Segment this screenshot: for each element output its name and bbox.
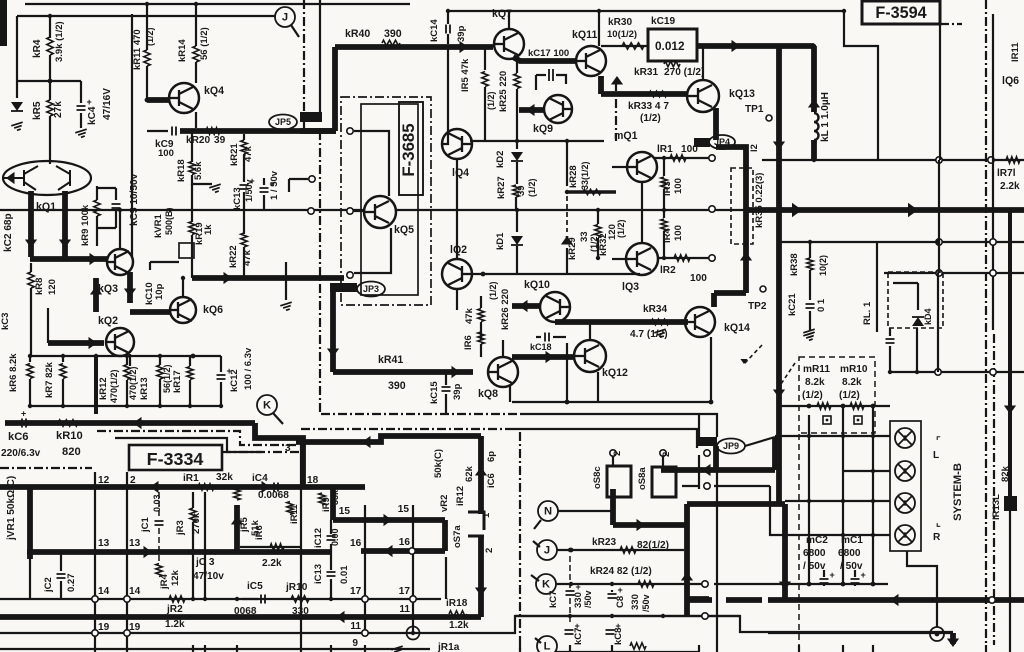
svg-text:10p: 10p bbox=[154, 283, 165, 300]
svg-text:kQ10: kQ10 bbox=[524, 279, 550, 291]
wire bbox=[146, 4, 148, 50]
wire y406 bbox=[779, 405, 890, 407]
resistor jR5 column bbox=[234, 505, 240, 552]
svg-text:kR6 8.2k: kR6 8.2k bbox=[8, 353, 19, 392]
wire bbox=[47, 308, 49, 343]
svg-text:6800: 6800 bbox=[838, 548, 861, 559]
capacitor mC2 bbox=[820, 579, 829, 583]
svg-text:kR38: kR38 bbox=[789, 253, 800, 276]
svg-text:kC17 100: kC17 100 bbox=[528, 48, 569, 59]
wire emitter rail bbox=[512, 401, 711, 403]
resistor kR23 bbox=[620, 547, 636, 553]
wire bbox=[243, 247, 245, 278]
svg-text:+: + bbox=[830, 570, 835, 580]
svg-text:270 (1/2): 270 (1/2) bbox=[664, 67, 704, 78]
capacitor near kQ9 bbox=[536, 74, 546, 76]
wire kQ8 collector bbox=[502, 340, 504, 357]
resistor kR31 bbox=[664, 61, 680, 67]
wire bbox=[119, 327, 121, 329]
transistor lQ4 bbox=[442, 129, 472, 159]
svg-text:kR41: kR41 bbox=[378, 354, 403, 366]
svg-text:F-3594: F-3594 bbox=[875, 4, 926, 22]
svg-text:15: 15 bbox=[339, 506, 351, 517]
svg-text:L: L bbox=[544, 641, 551, 652]
transistor kQ2 bbox=[106, 328, 134, 356]
wire bbox=[263, 195, 265, 210]
svg-text:lR6: lR6 bbox=[463, 335, 474, 350]
resistor kR14 bbox=[193, 46, 199, 62]
resistor kR24 bbox=[638, 581, 654, 587]
svg-text:14: 14 bbox=[98, 586, 110, 597]
svg-text:470(1/2): 470(1/2) bbox=[109, 369, 119, 403]
wire pin column 3-18 bbox=[300, 437, 302, 645]
svg-text:mR10: mR10 bbox=[840, 364, 868, 375]
svg-text:kR26 220: kR26 220 bbox=[500, 289, 511, 330]
wire bbox=[195, 62, 197, 83]
wire kQ11 collector bbox=[598, 11, 600, 46]
svg-text:kR27: kR27 bbox=[496, 176, 507, 199]
wire thick drop2 bbox=[776, 160, 782, 210]
svg-text:+: + bbox=[861, 570, 866, 580]
resistor iR18 bbox=[449, 611, 467, 617]
wire col mC1 bbox=[872, 406, 874, 584]
resistor kR35 box bbox=[731, 168, 753, 244]
pin bbox=[709, 206, 715, 212]
svg-text:56(1/2): 56(1/2) bbox=[162, 364, 172, 393]
switch oS8c bbox=[607, 466, 631, 497]
wire lR1 bbox=[654, 157, 712, 159]
svg-text:kQ8: kQ8 bbox=[478, 388, 498, 400]
wire bbox=[80, 81, 82, 103]
ground2 bbox=[803, 329, 816, 338]
ground bbox=[391, 646, 404, 652]
wire staircase thick bbox=[255, 423, 303, 487]
wire bbox=[149, 262, 151, 270]
transistor mQ1 bbox=[627, 152, 657, 182]
svg-text:iC5: iC5 bbox=[247, 581, 263, 592]
ground bbox=[75, 129, 88, 138]
wire kQ14 collector bbox=[711, 293, 717, 307]
svg-text:mQ1: mQ1 bbox=[614, 130, 638, 142]
wire kC17 bbox=[513, 57, 577, 61]
svg-text:1: 1 bbox=[481, 512, 492, 518]
svg-text:kC14: kC14 bbox=[429, 19, 440, 42]
ground bbox=[209, 184, 222, 193]
svg-text:kR29: kR29 bbox=[567, 237, 578, 260]
svg-text:2: 2 bbox=[612, 451, 623, 456]
svg-text:330: 330 bbox=[630, 594, 641, 610]
resistor kR9 bbox=[96, 186, 98, 200]
wire thick up bbox=[684, 504, 690, 525]
arrow up bbox=[611, 76, 623, 85]
svg-text:/50v: /50v bbox=[583, 590, 593, 608]
svg-text:R: R bbox=[933, 532, 941, 543]
wire frame right bbox=[844, 12, 878, 160]
diode kD4 bbox=[912, 317, 924, 326]
col kC8 bbox=[611, 590, 613, 592]
wire bbox=[893, 282, 918, 284]
wire bottom right rail bbox=[768, 632, 953, 634]
transistor kQ12 bbox=[574, 340, 606, 372]
svg-text:C8: C8 bbox=[615, 596, 626, 608]
svg-text:kQ6: kQ6 bbox=[203, 304, 223, 316]
svg-text:100: 100 bbox=[690, 273, 707, 284]
wire bbox=[191, 235, 193, 278]
letter node L bbox=[537, 636, 557, 652]
svg-text:lR1: lR1 bbox=[657, 144, 673, 155]
wire bbox=[285, 262, 287, 300]
svg-text:RL. 1: RL. 1 bbox=[862, 301, 873, 325]
capacitor kC12 bbox=[220, 356, 222, 372]
svg-text:kC4: kC4 bbox=[87, 106, 98, 125]
wire kQ12 base arrow bbox=[512, 354, 574, 360]
svg-text:10(2): 10(2) bbox=[818, 255, 828, 276]
rail thick dash mid bbox=[687, 596, 709, 602]
wire JP9 right bbox=[745, 437, 775, 446]
resistor jR2 bbox=[169, 596, 185, 602]
resistor lR3 bbox=[663, 158, 665, 176]
svg-text:kR18: kR18 bbox=[176, 159, 187, 182]
speaker terminal 3 bbox=[895, 493, 915, 513]
wire pin stub bbox=[289, 178, 308, 180]
rail thick y552 bbox=[27, 549, 330, 555]
capacitor kC4 bbox=[77, 106, 86, 110]
wire bbox=[447, 46, 449, 136]
wire thick to rail bbox=[716, 147, 746, 293]
svg-text:17: 17 bbox=[399, 586, 411, 597]
svg-text:kC12: kC12 bbox=[229, 369, 240, 392]
wire bbox=[698, 414, 700, 437]
wire bbox=[49, 16, 51, 38]
wire thick oS8 column bbox=[684, 525, 690, 617]
wire thick right drop bbox=[776, 212, 782, 504]
svg-text:2.2k: 2.2k bbox=[262, 558, 282, 569]
wire kQ6 collector bbox=[182, 278, 184, 297]
transistor kQ9 bbox=[544, 95, 572, 123]
svg-text:kR35 0.22(3): kR35 0.22(3) bbox=[754, 173, 765, 228]
svg-text:/50v: /50v bbox=[641, 594, 651, 612]
wire bbox=[191, 184, 193, 222]
wire kQ9 base arrow bbox=[519, 107, 544, 113]
wire bbox=[263, 178, 265, 185]
wire dash col bbox=[798, 434, 800, 645]
wire col bbox=[808, 415, 810, 584]
svg-text:kR7 82k: kR7 82k bbox=[44, 361, 55, 398]
svg-text:K: K bbox=[542, 579, 550, 591]
svg-text:kD2: kD2 bbox=[495, 151, 506, 168]
letter node J2 bbox=[537, 540, 557, 560]
wire pin column 12-19 b bbox=[126, 472, 128, 645]
svg-text:kVR1: kVR1 bbox=[153, 214, 164, 238]
svg-text:kR25 220: kR25 220 bbox=[498, 71, 509, 112]
svg-text:kR4: kR4 bbox=[32, 39, 43, 58]
rail main thick right bbox=[746, 207, 1024, 213]
wire boundary dashdot right bbox=[985, 0, 987, 645]
wire bbox=[319, 0, 321, 112]
svg-text:jR3: jR3 bbox=[175, 520, 186, 536]
wire bbox=[97, 187, 116, 189]
svg-text:390: 390 bbox=[388, 380, 406, 392]
wire bias bottom bbox=[30, 405, 221, 407]
wire col jp9r bbox=[716, 472, 718, 645]
wire speaker return drop bbox=[950, 633, 956, 644]
wire kC5 column bbox=[131, 14, 133, 258]
resistor jR3 bbox=[192, 492, 194, 508]
module label F-3685 bbox=[399, 102, 423, 195]
svg-text:iR6: iR6 bbox=[254, 525, 265, 540]
svg-text:kC2 68p: kC2 68p bbox=[3, 213, 14, 252]
resistor kR17 bbox=[189, 356, 191, 366]
svg-text:F-3334: F-3334 bbox=[147, 449, 204, 469]
wire bbox=[195, 4, 197, 46]
svg-text:K: K bbox=[263, 400, 271, 412]
capacitor kC9 bbox=[172, 127, 176, 136]
wire kQ2 base arrow bbox=[48, 340, 104, 346]
ground bbox=[654, 329, 667, 338]
resistor lR4 bbox=[663, 210, 665, 218]
switch link dashes bbox=[744, 345, 762, 364]
svg-text:kR8: kR8 bbox=[34, 278, 45, 295]
capacitor kC7b bbox=[565, 630, 574, 634]
capacitor iC5 bbox=[242, 598, 258, 600]
wire thick to JP5 bbox=[180, 128, 336, 134]
speaker box bbox=[890, 421, 921, 551]
svg-text:62k: 62k bbox=[464, 465, 475, 482]
switch oS7a bbox=[468, 512, 484, 530]
svg-text:kR22: kR22 bbox=[228, 245, 239, 268]
wire K kR24 bbox=[556, 583, 705, 585]
wire pin column 15-11 bbox=[364, 505, 366, 633]
wire K rail ext bbox=[714, 583, 888, 585]
wire kQ12 emitter bbox=[597, 372, 599, 402]
svg-text:50k(C): 50k(C) bbox=[433, 449, 444, 478]
svg-text:39: 39 bbox=[516, 185, 527, 196]
rail kR40 thick bbox=[335, 44, 493, 50]
resistor kR11 bbox=[144, 50, 150, 66]
rail thick y487 bbox=[0, 484, 365, 490]
diode kD2 bbox=[516, 141, 518, 149]
wire main rail left bbox=[0, 209, 363, 211]
transistor kQ11 bbox=[576, 46, 606, 76]
resistor kR8 bbox=[30, 263, 32, 272]
svg-text:JP5: JP5 bbox=[275, 117, 291, 127]
wire jVR1 column bbox=[27, 487, 33, 559]
svg-text:mR11: mR11 bbox=[803, 364, 830, 375]
svg-text:jC 3: jC 3 bbox=[195, 557, 215, 568]
resistor kR26 bbox=[480, 296, 482, 308]
svg-text:lQ4: lQ4 bbox=[452, 167, 469, 179]
switch oS8a bbox=[652, 467, 676, 497]
svg-text:iR18: iR18 bbox=[446, 598, 468, 609]
resistor kR32 bbox=[597, 210, 599, 224]
connector JP9 bbox=[698, 437, 717, 446]
svg-text:L: L bbox=[933, 450, 939, 461]
ground bbox=[280, 302, 293, 311]
capacitor jC2 bbox=[60, 552, 62, 571]
svg-text:kL 1 1.0µH: kL 1 1.0µH bbox=[820, 92, 831, 142]
svg-text:kC7: kC7 bbox=[573, 628, 584, 645]
wire boundary dashdot2 bbox=[319, 131, 321, 413]
zener kD L bbox=[11, 102, 23, 111]
wire bbox=[939, 24, 941, 160]
svg-text:500(B): 500(B) bbox=[164, 207, 174, 235]
capacitor iC12 bbox=[330, 520, 332, 534]
svg-text:0.03: 0.03 bbox=[152, 494, 162, 512]
svg-text:(1/2): (1/2) bbox=[802, 390, 823, 401]
wire pin column b bbox=[412, 505, 414, 633]
wire bottom edge bbox=[0, 648, 430, 650]
capacitor kC8b bbox=[606, 630, 615, 634]
svg-text:+: + bbox=[576, 582, 581, 592]
svg-text:kR20: kR20 bbox=[186, 135, 211, 146]
transistor kQ14 bbox=[685, 307, 715, 337]
transistor kQ3 bbox=[107, 249, 133, 275]
wire rail y242 bbox=[779, 241, 1024, 243]
svg-text:270k: 270k bbox=[191, 512, 202, 534]
svg-text:+: + bbox=[87, 97, 92, 107]
svg-text:iR12: iR12 bbox=[455, 486, 466, 506]
terminal marks bbox=[823, 416, 831, 424]
wire bbox=[243, 154, 245, 182]
svg-text:6800: 6800 bbox=[803, 548, 826, 559]
resistor lR5 bbox=[484, 47, 486, 70]
svg-text:kR21: kR21 bbox=[229, 143, 240, 166]
resistor iR9 bbox=[319, 493, 325, 505]
svg-text:oS8c: oS8c bbox=[592, 466, 603, 489]
wire bbox=[1009, 511, 1011, 645]
speaker terminal 2 bbox=[895, 461, 915, 481]
svg-text:47/16V: 47/16V bbox=[102, 88, 113, 120]
wire bbox=[192, 175, 212, 184]
resistor lR6 bbox=[478, 332, 484, 344]
svg-text:kQ14: kQ14 bbox=[724, 322, 750, 334]
svg-text:kR14: kR14 bbox=[177, 39, 188, 62]
wire lamp rows bbox=[775, 435, 890, 437]
wire N bbox=[558, 510, 613, 512]
svg-text:kQ2: kQ2 bbox=[98, 315, 118, 327]
svg-text:lQ2: lQ2 bbox=[450, 244, 467, 256]
wire top mid bbox=[448, 10, 844, 12]
resistor mR11 bbox=[817, 403, 831, 409]
svg-text:17: 17 bbox=[350, 586, 362, 597]
svg-text:5.6k: 5.6k bbox=[193, 161, 204, 180]
capacitor kC18 bbox=[545, 333, 549, 342]
wire bbox=[191, 131, 193, 162]
svg-text:2.2k: 2.2k bbox=[1000, 181, 1020, 192]
resistor kR34 bbox=[651, 319, 669, 325]
svg-text:kR34: kR34 bbox=[643, 304, 668, 315]
pin bbox=[347, 128, 353, 134]
svg-text:82k: 82k bbox=[1000, 465, 1011, 482]
wire kQ12 collector bbox=[589, 322, 591, 340]
trimmer kVR1 bbox=[179, 243, 194, 258]
svg-text:kC6: kC6 bbox=[8, 431, 29, 443]
rail thick y617 bbox=[0, 614, 481, 620]
svg-text:100 / 6.3v: 100 / 6.3v bbox=[243, 347, 254, 390]
wire pin column 12-19 a bbox=[94, 472, 96, 645]
capacitor kC6 bbox=[22, 419, 26, 428]
wire bbox=[535, 75, 537, 90]
svg-text:TP1: TP1 bbox=[745, 104, 764, 115]
wire mQ1 base bbox=[612, 166, 627, 168]
resistor kR4 bbox=[47, 37, 53, 55]
wire oS7a upper column bbox=[478, 436, 484, 514]
svg-text:kQ1: kQ1 bbox=[36, 201, 56, 213]
svg-text:11: 11 bbox=[399, 604, 410, 615]
diode kD1 bbox=[516, 210, 518, 232]
wire thick TP2 bbox=[714, 290, 746, 296]
svg-text:vR2: vR2 bbox=[439, 495, 450, 512]
wire lQ3 base bbox=[612, 258, 626, 260]
resistor kR19 bbox=[189, 222, 195, 235]
junction dots texture bbox=[130, 208, 134, 212]
svg-text:100: 100 bbox=[158, 148, 174, 159]
transistor kQ6 bbox=[170, 297, 196, 323]
svg-text:lR5 47k: lR5 47k bbox=[460, 58, 471, 92]
resistor kR20 bbox=[206, 128, 220, 134]
wire rail y273 bbox=[884, 272, 1024, 274]
wire y141 rail bbox=[470, 140, 604, 142]
svg-text:kR13: kR13 bbox=[139, 377, 150, 400]
rail thick oS8 bbox=[661, 467, 775, 473]
wire kQ5 links bbox=[354, 131, 389, 196]
wire bbox=[566, 343, 568, 402]
transistor kQ13 bbox=[687, 80, 719, 112]
svg-text:(1/2): (1/2) bbox=[839, 390, 860, 401]
connector JP5 bbox=[300, 112, 322, 122]
svg-text:0.27: 0.27 bbox=[66, 574, 77, 593]
capacitor kC14 bbox=[447, 11, 449, 24]
svg-text:jC1: jC1 bbox=[140, 517, 151, 534]
svg-text:3: 3 bbox=[285, 443, 291, 454]
svg-text:+: + bbox=[21, 409, 26, 419]
right thick column bbox=[1008, 210, 1012, 496]
test point screw bbox=[407, 627, 420, 640]
rail thick 16 bbox=[442, 520, 448, 551]
transistor lQ2 bbox=[442, 259, 472, 289]
wire iR6 row bbox=[240, 546, 301, 548]
wire rail y160 bbox=[762, 159, 1024, 161]
capacitor kC19 0.012 bbox=[648, 29, 697, 61]
svg-text:1.2k: 1.2k bbox=[449, 620, 469, 631]
resistor kR13 bbox=[159, 356, 161, 365]
wire boundary bbox=[0, 467, 92, 469]
svg-text:JP9: JP9 bbox=[723, 441, 739, 451]
rail thick bottom dashes bbox=[687, 597, 712, 603]
wire lQ2 emitter bbox=[456, 289, 458, 310]
svg-text:TP2: TP2 bbox=[748, 301, 767, 312]
svg-text:kQ4: kQ4 bbox=[204, 85, 224, 97]
svg-text:8.2k: 8.2k bbox=[842, 377, 862, 388]
capacitor iC4 bbox=[274, 483, 278, 492]
wire bbox=[854, 584, 856, 586]
wire kQ1 collector arrows bbox=[28, 191, 34, 257]
resistor kR27 39 bbox=[513, 185, 519, 197]
rail thick y441 bbox=[296, 436, 481, 442]
svg-text:(1/2): (1/2) bbox=[486, 91, 496, 110]
svg-text:kR12: kR12 bbox=[98, 377, 109, 400]
switch link dash2 bbox=[781, 363, 795, 384]
wire row17 bbox=[0, 598, 441, 600]
wire kR41 thick bbox=[330, 286, 336, 372]
svg-text:32k: 32k bbox=[216, 472, 233, 483]
svg-text:lR3: lR3 bbox=[662, 181, 673, 196]
svg-text:11: 11 bbox=[350, 621, 361, 632]
wire thick corner bbox=[772, 437, 778, 470]
svg-text:1/50v: 1/50v bbox=[244, 179, 254, 202]
transistor kQ10 bbox=[540, 292, 570, 322]
wire lR2 bbox=[658, 257, 712, 259]
